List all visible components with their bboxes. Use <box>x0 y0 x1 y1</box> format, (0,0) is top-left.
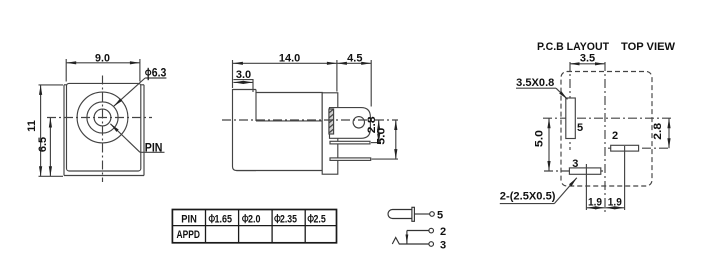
terminal 2 <box>429 228 434 233</box>
svg-text:2: 2 <box>612 130 618 142</box>
lower terminal lug <box>330 158 371 161</box>
terminal 2 wire <box>407 231 429 244</box>
pcb horizontal centerline <box>543 117 671 119</box>
tab hole <box>353 117 364 128</box>
front view flange plate <box>64 85 144 176</box>
svg-text:5: 5 <box>437 210 443 222</box>
dimension 2.8 pcb <box>652 118 671 148</box>
svg-text:3.5X0.8: 3.5X0.8 <box>516 77 554 89</box>
pad 2 <box>611 145 639 151</box>
label phi6.3 leader <box>113 68 167 108</box>
pad 5 <box>566 98 576 139</box>
label PIN leader <box>109 123 164 155</box>
snout joint line <box>255 93 257 122</box>
pcb outline <box>561 72 652 187</box>
dimension 4.5 <box>337 53 371 107</box>
svg-text:PIN: PIN <box>181 214 197 226</box>
pad 2 extension line <box>624 146 626 210</box>
svg-text:3.0: 3.0 <box>236 69 251 81</box>
upper terminal lug <box>330 141 370 144</box>
front view body face <box>67 83 141 171</box>
pad 3 centerline <box>544 170 603 172</box>
svg-text:2.35: 2.35 <box>280 214 297 226</box>
svg-text:APPD: APPD <box>177 229 200 241</box>
barrel mid circle <box>87 102 118 133</box>
svg-text:9.0: 9.0 <box>95 52 110 64</box>
svg-text:1.65: 1.65 <box>215 214 233 226</box>
svg-text:6.3: 6.3 <box>152 68 167 80</box>
center pin circle <box>94 109 111 126</box>
body internal line <box>256 120 322 122</box>
centerline horizontal front view <box>47 117 152 119</box>
plug tip symbol <box>388 207 430 221</box>
svg-text:3: 3 <box>572 158 578 170</box>
switch contact drop <box>406 235 409 244</box>
pad 3 extension line <box>585 164 587 210</box>
svg-text:3.5: 3.5 <box>580 53 595 65</box>
svg-text:PIN: PIN <box>145 140 163 154</box>
svg-text:P.C.B LAYOUT: P.C.B LAYOUT <box>537 41 609 53</box>
svg-text:5.0: 5.0 <box>375 128 387 145</box>
centerline vertical front view <box>102 76 104 183</box>
dimension 9.0 <box>66 52 140 81</box>
table row 1 text <box>181 214 325 226</box>
svg-text:2-(2.5X0.5): 2-(2.5X0.5) <box>500 191 556 203</box>
svg-text:5.0: 5.0 <box>534 130 546 147</box>
switch lever and terminal 3 wire <box>392 238 429 245</box>
svg-text:1.9: 1.9 <box>608 196 622 208</box>
pad 2 centerline <box>608 147 671 149</box>
pad 3 <box>569 168 600 174</box>
side view barrel snout <box>233 90 257 171</box>
svg-text:3: 3 <box>440 240 446 252</box>
hatched pin section <box>329 109 334 134</box>
dimension 5.0 pcb <box>534 118 551 171</box>
dimension 1.9 right <box>605 196 625 209</box>
svg-text:6.5: 6.5 <box>37 137 49 152</box>
dimension 2.8 side <box>366 116 381 143</box>
dimension 5.0 side <box>372 120 399 159</box>
svg-text:2.8: 2.8 <box>652 123 664 140</box>
svg-text:5: 5 <box>577 122 583 134</box>
dimension 1.9 left <box>586 196 605 209</box>
solder tab <box>330 108 371 139</box>
svg-text:2.5: 2.5 <box>314 214 326 226</box>
side view bracket <box>322 93 338 174</box>
pcb vertical centerline <box>604 62 606 212</box>
svg-text:2: 2 <box>440 226 446 238</box>
dimension 6.5 <box>37 118 52 177</box>
terminal 3 <box>429 242 434 247</box>
svg-text:11: 11 <box>26 120 38 132</box>
dimension 3.5 <box>570 53 606 66</box>
svg-text:2.0: 2.0 <box>248 214 261 226</box>
leader 2-(2.5X0.5) <box>500 177 578 204</box>
svg-text:14.0: 14.0 <box>279 53 300 65</box>
dimension 14.0 <box>233 53 337 92</box>
dimension 3.0 <box>233 69 253 92</box>
svg-text:1.9: 1.9 <box>588 196 602 208</box>
svg-text:TOP VIEW: TOP VIEW <box>621 41 676 53</box>
dimension 11 <box>26 85 63 176</box>
pin size table <box>172 210 336 243</box>
side view body <box>237 90 323 171</box>
svg-text:4.5: 4.5 <box>347 53 362 65</box>
leader 3.5X0.8 <box>516 77 569 100</box>
side view centerline <box>222 119 398 121</box>
barrel outer circle <box>77 92 128 143</box>
pad 5 centerline <box>569 62 571 150</box>
terminal 5 <box>430 212 435 217</box>
